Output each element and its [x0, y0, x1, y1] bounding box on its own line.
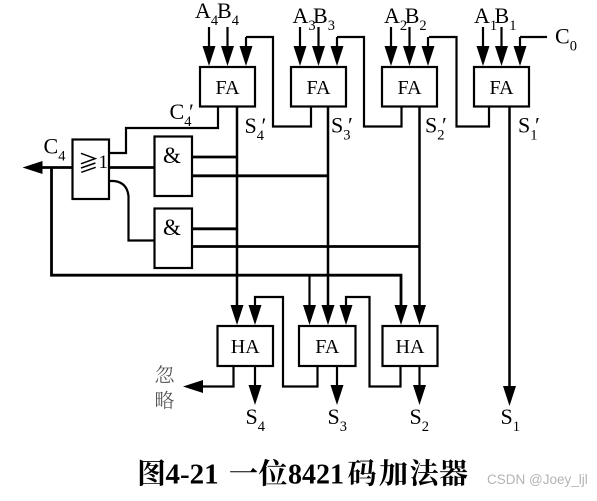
- carry wire C3' loop from FA bit 2 to FA bit 3: [337, 37, 402, 127]
- wire correction branch to FA bottom: [308, 275, 310, 306]
- svg-text:FA: FA: [215, 77, 240, 99]
- AND gate 2: [155, 209, 193, 269]
- carry input arrow (bit 3): [336, 37, 338, 48]
- svg-text:HA: HA: [396, 336, 425, 358]
- input A3 arrow: [299, 27, 301, 48]
- input B3 arrow: [317, 27, 319, 48]
- wire AND1 output to OR input: [110, 166, 155, 169]
- svg-text:&: &: [163, 143, 181, 168]
- input A1 arrow: [482, 27, 484, 48]
- carry wire C4' loop from FA bit 3 to FA bit 4: [246, 37, 311, 127]
- label ignore (hu): [155, 365, 173, 383]
- svg-text:FA: FA: [306, 77, 331, 99]
- wire S3' vertical: [327, 107, 330, 307]
- svg-text:&: &: [163, 215, 181, 240]
- wire S1' vertical to output: [508, 107, 511, 388]
- full adder FA (bit 4 first stage): [200, 67, 255, 107]
- AND gate 1: [155, 137, 193, 197]
- svg-text:1: 1: [99, 152, 109, 173]
- carry input arrow (bit 4): [245, 37, 247, 48]
- svg-text:8421: 8421: [288, 460, 344, 491]
- carry input arrow (bit 1): [519, 37, 521, 48]
- input B4 arrow: [226, 27, 228, 48]
- input A2 arrow: [390, 27, 392, 48]
- wire S4 output: [254, 366, 256, 387]
- svg-text:CSDN @Joey_ljl: CSDN @Joey_ljl: [487, 472, 588, 487]
- caption: figure 4-21 one-digit 8421 code adder: [140, 459, 165, 486]
- carry wire from bottom FA to HA bit4: [255, 297, 318, 387]
- wire S4' to AND1 input a: [192, 156, 237, 159]
- wire C4' to OR gate: [110, 107, 219, 154]
- full adder FA (bit 3 first stage): [291, 67, 346, 107]
- half adder HA (sum bit 4): [218, 326, 274, 366]
- carry input arrow (bit 2): [427, 37, 429, 48]
- svg-text:FA: FA: [397, 77, 422, 99]
- label ignore (lue): [156, 391, 174, 409]
- wire S2 output: [418, 366, 420, 387]
- OR gate (&#8805;1): [73, 140, 110, 200]
- C4 output arrow: [23, 161, 43, 174]
- carry wire from HA bit2 to bottom FA: [346, 297, 401, 387]
- wire S2' vertical: [418, 107, 421, 307]
- svg-text:FA: FA: [315, 336, 340, 358]
- wire AND2 output to OR input: [110, 181, 155, 241]
- wire S2' to AND2 input b: [192, 245, 420, 248]
- svg-text:FA: FA: [489, 77, 514, 99]
- wire correction C4 to bottom adders: [52, 168, 402, 307]
- ignore output arrow: [183, 380, 203, 393]
- svg-text:4-21: 4-21: [166, 459, 219, 491]
- wire S4' vertical: [236, 107, 239, 307]
- full adder FA (sum bit 3): [299, 326, 356, 366]
- input B2 arrow: [408, 27, 410, 48]
- wire S3 output: [336, 366, 338, 387]
- input A4 arrow: [208, 27, 210, 48]
- wire OR output / C4: [42, 166, 73, 169]
- input B1 arrow: [500, 27, 502, 48]
- wire S4' to AND2 input a: [192, 227, 237, 230]
- full adder FA (bit 1 first stage): [474, 67, 529, 107]
- carry wire C2' loop from FA bit 1 to FA bit 2: [429, 37, 489, 127]
- full adder FA (bit 2 first stage): [382, 67, 437, 107]
- svg-text:HA: HA: [231, 336, 260, 358]
- wire HA bit4 carry to ignore: [203, 366, 234, 387]
- wire C0 input: [520, 36, 547, 38]
- half adder HA (sum bit 2): [383, 326, 438, 366]
- wire S3' to AND1 input b: [192, 174, 328, 177]
